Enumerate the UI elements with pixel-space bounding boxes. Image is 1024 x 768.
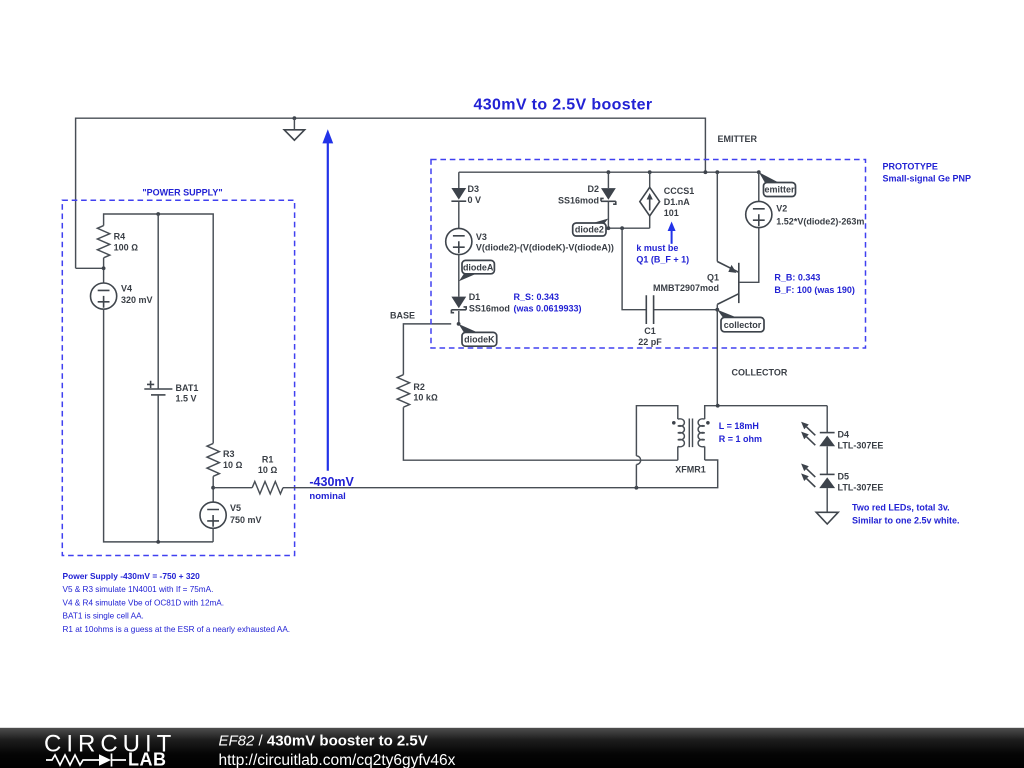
ground GND2 xyxy=(816,512,838,524)
svg-text:EMITTER: EMITTER xyxy=(718,134,758,144)
svg-text:1.52*V(diode2)-263m: 1.52*V(diode2)-263m xyxy=(776,217,864,227)
svg-text:R2: R2 xyxy=(413,382,425,392)
node diodeK junction xyxy=(457,322,461,326)
flag diode2 xyxy=(592,219,608,224)
voltage source V2 xyxy=(739,172,759,282)
svg-text:Two red LEDs, total 3v.: Two red LEDs, total 3v. xyxy=(852,502,950,512)
svg-text:V5: V5 xyxy=(230,503,241,513)
svg-text:V3: V3 xyxy=(476,232,487,242)
diode D1 (schottky) xyxy=(451,297,466,309)
diode D3 xyxy=(458,172,460,188)
svg-text:http://circuitlab.com/cq2ty6gy: http://circuitlab.com/cq2ty6gyfv46x xyxy=(219,752,456,768)
annotation arrow -430mV rail xyxy=(322,129,333,143)
svg-text:320 mV: 320 mV xyxy=(121,295,153,305)
svg-text:emitter: emitter xyxy=(764,185,795,195)
svg-text:1.5 V: 1.5 V xyxy=(176,394,197,404)
diode D2 (schottky) xyxy=(607,172,609,188)
flag diodeA xyxy=(459,274,477,282)
svg-text:100 Ω: 100 Ω xyxy=(114,242,139,252)
wire PS top rail xyxy=(104,214,214,443)
svg-text:PROTOTYPE: PROTOTYPE xyxy=(883,161,938,171)
wire hop xyxy=(636,456,640,465)
svg-text:"POWER SUPPLY": "POWER SUPPLY" xyxy=(142,188,222,198)
voltage source V5 xyxy=(200,502,226,528)
svg-text:R_S: 0.343: R_S: 0.343 xyxy=(514,292,560,302)
svg-text:101: 101 xyxy=(664,208,679,218)
svg-text:R4: R4 xyxy=(114,232,126,242)
svg-text:diode2: diode2 xyxy=(575,225,604,235)
node xfmr left tap xyxy=(635,486,639,490)
node BAT1 top junction xyxy=(156,212,160,216)
svg-text:Power Supply -430mV = -750 + 3: Power Supply -430mV = -750 + 320 xyxy=(63,571,201,581)
svg-text:V(diode2)-(V(diodeK)-V(diodeA): V(diode2)-(V(diodeK)-V(diodeA)) xyxy=(476,243,614,253)
svg-text:D5: D5 xyxy=(838,471,850,481)
svg-text:(was 0.0619933): (was 0.0619933) xyxy=(514,303,582,313)
flag collector xyxy=(717,310,737,318)
current source CCCS1 xyxy=(649,172,651,228)
svg-text:Similar to one 2.5v white.: Similar to one 2.5v white. xyxy=(852,515,960,525)
svg-text:750 mV: 750 mV xyxy=(230,515,262,525)
svg-text:22 pF: 22 pF xyxy=(638,337,662,347)
flag diodeK xyxy=(459,324,478,333)
XFMR1 secondary coil xyxy=(698,419,705,447)
wire base to R2 xyxy=(403,324,451,375)
svg-text:diodeK: diodeK xyxy=(464,335,495,345)
PROTOTYPE dashed box xyxy=(431,160,866,349)
capacitor C1 xyxy=(622,228,717,310)
svg-text:R_B: 0.343: R_B: 0.343 xyxy=(774,273,820,283)
wire LED branch xyxy=(826,406,828,433)
svg-text:D4: D4 xyxy=(838,430,850,440)
svg-text:L = 18mH: L = 18mH xyxy=(719,421,759,431)
svg-text:k must be: k must be xyxy=(636,243,678,253)
svg-text:V4 & R4 simulate Vbe of OC81D: V4 & R4 simulate Vbe of OC81D with 12mA. xyxy=(63,598,225,607)
svg-text:BASE: BASE xyxy=(390,310,415,320)
svg-text:nominal: nominal xyxy=(309,491,345,502)
svg-text:V2: V2 xyxy=(776,204,787,214)
XFMR1 primary coil xyxy=(678,419,685,447)
LED D5 xyxy=(820,473,835,475)
svg-text:C1: C1 xyxy=(644,326,656,336)
svg-text:MMBT2907mod: MMBT2907mod xyxy=(653,283,719,293)
svg-text:CCCS1: CCCS1 xyxy=(664,186,695,196)
wire to R4/V4 junction xyxy=(76,267,104,269)
svg-text:LTL-307EE: LTL-307EE xyxy=(838,482,884,492)
svg-text:D2: D2 xyxy=(587,184,599,194)
svg-text:R1 at 10ohms is a guess at the: R1 at 10ohms is a guess at the ESR of a … xyxy=(63,625,291,634)
svg-text:10 Ω: 10 Ω xyxy=(258,465,278,475)
svg-text:-430mV: -430mV xyxy=(309,475,354,489)
transformer XFMR1 left loop xyxy=(636,406,677,488)
svg-text:XFMR1: XFMR1 xyxy=(675,465,706,475)
svg-text:V4: V4 xyxy=(121,284,132,294)
svg-text:R3: R3 xyxy=(223,449,235,459)
resistor R1 xyxy=(213,487,252,489)
svg-text:collector: collector xyxy=(724,320,762,330)
svg-text:V5 & R3 simulate 1N4001 with I: V5 & R3 simulate 1N4001 with If = 75mA. xyxy=(63,585,214,594)
annotation arrow to CCCS1 xyxy=(668,222,676,232)
svg-text:diodeA: diodeA xyxy=(463,262,494,272)
node R4/V4 junction xyxy=(102,266,106,270)
voltage source V3 xyxy=(446,228,472,254)
wire -430mV rail xyxy=(283,460,718,488)
transistor Q1 (PNP) xyxy=(716,172,718,261)
svg-text:D1.nA: D1.nA xyxy=(664,197,691,207)
svg-text:10 Ω: 10 Ω xyxy=(223,460,243,470)
svg-text:BAT1 is single cell AA.: BAT1 is single cell AA. xyxy=(63,612,144,621)
wire V4 to bottom rail xyxy=(104,309,214,542)
svg-text:B_F: 100 (was 190): B_F: 100 (was 190) xyxy=(774,285,855,295)
node R3/V5/R1 junction xyxy=(211,486,215,490)
battery BAT1 xyxy=(157,214,159,389)
wire V3 to D1 xyxy=(458,255,460,297)
flag emitter xyxy=(759,172,779,182)
wire top rail xyxy=(76,118,706,268)
svg-text:Q1 (B_F + 1): Q1 (B_F + 1) xyxy=(636,255,689,265)
LED D4 xyxy=(820,432,835,434)
svg-text:EF82 / 430mV booster to 2.5V: EF82 / 430mV booster to 2.5V xyxy=(219,733,428,750)
svg-text:D3: D3 xyxy=(468,184,480,194)
POWER SUPPLY dashed box xyxy=(62,200,294,555)
svg-text:LTL-307EE: LTL-307EE xyxy=(838,441,884,451)
svg-text:LAB: LAB xyxy=(128,750,167,768)
svg-text:SS16mod: SS16mod xyxy=(469,303,510,313)
resistor R4 xyxy=(97,226,109,258)
wire box top rail xyxy=(459,171,759,173)
ground GND1 xyxy=(293,116,297,120)
node collector junction xyxy=(715,308,719,312)
wire collector down xyxy=(716,310,718,406)
wire R3 to junction xyxy=(212,476,214,502)
voltage source V4 xyxy=(91,283,117,309)
svg-text:Q1: Q1 xyxy=(707,272,719,282)
svg-text:SS16mod: SS16mod xyxy=(558,195,599,205)
svg-text:Small-signal Ge PNP: Small-signal Ge PNP xyxy=(883,173,972,183)
svg-text:COLLECTOR: COLLECTOR xyxy=(732,367,788,377)
svg-text:10 kΩ: 10 kΩ xyxy=(413,393,438,403)
wire R2 to xfmr (passes under hop) xyxy=(403,407,677,460)
svg-text:R1: R1 xyxy=(262,454,274,464)
XFMR1 core xyxy=(689,419,692,448)
svg-text:R = 1 ohm: R = 1 ohm xyxy=(719,434,762,444)
wire V5 bottom xyxy=(212,528,214,542)
resistor R3 xyxy=(207,443,219,476)
wire R4 to V4 xyxy=(103,258,105,283)
svg-text:BAT1: BAT1 xyxy=(176,383,199,393)
resistor R2 xyxy=(397,375,409,408)
svg-text:430mV to 2.5V booster: 430mV to 2.5V booster xyxy=(474,97,653,114)
svg-text:0 V: 0 V xyxy=(468,195,482,205)
svg-text:D1: D1 xyxy=(469,292,481,302)
